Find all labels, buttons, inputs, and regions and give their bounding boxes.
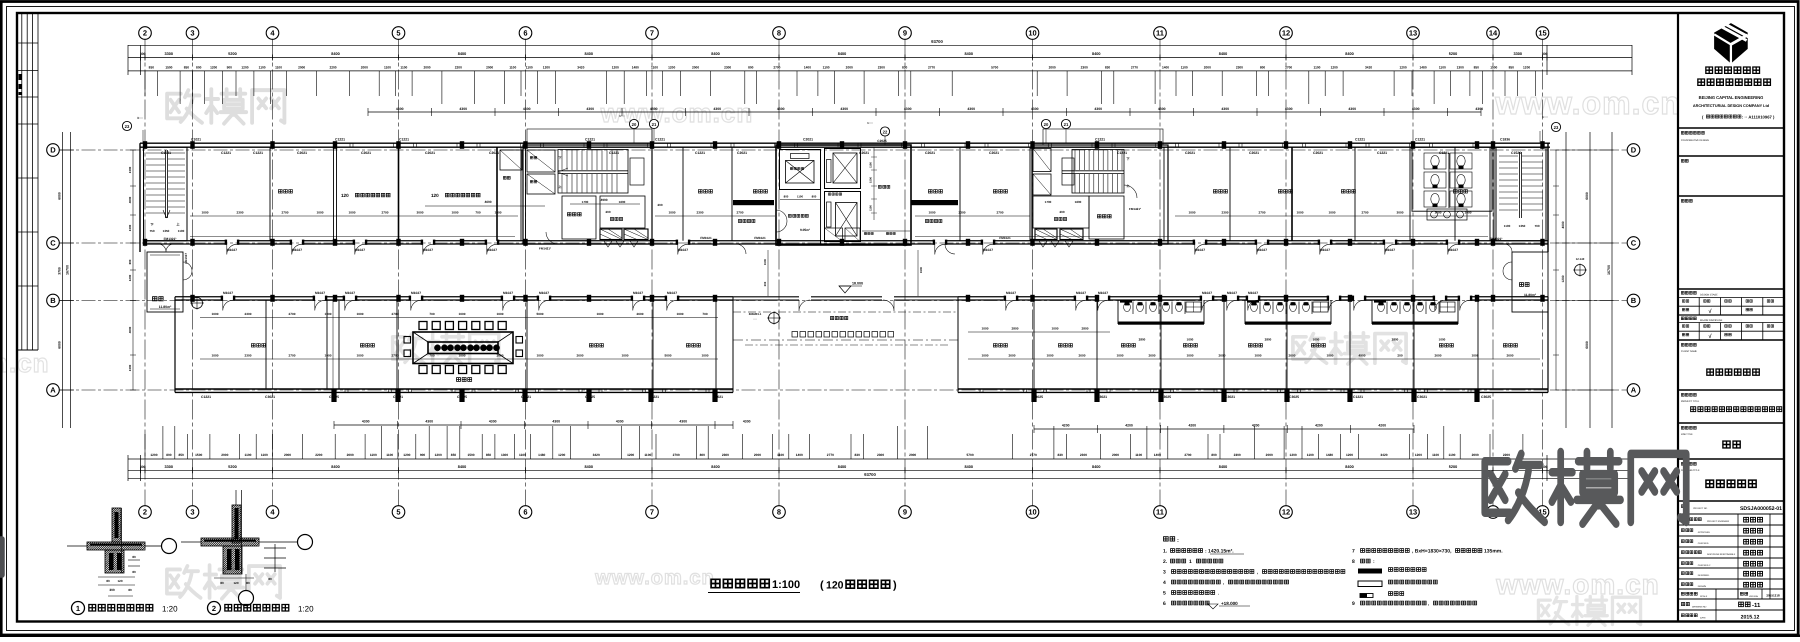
- svg-text:1.: 1.: [1163, 549, 1168, 555]
- svg-text:1000: 1000: [1189, 210, 1196, 214]
- signature box: [1681, 199, 1692, 202]
- svg-text:1200: 1200: [627, 453, 634, 457]
- svg-text:2600: 2600: [1079, 353, 1086, 357]
- svg-text:8400: 8400: [965, 465, 973, 469]
- svg-text:2200: 2200: [329, 66, 336, 70]
- svg-text:1500: 1500: [467, 453, 474, 457]
- column stubs below bottom wall: [331, 389, 336, 402]
- elevation target center-bottom: [769, 313, 780, 324]
- upper room doors (arcs into corridor): [227, 244, 237, 255]
- svg-text:9: 9: [1352, 601, 1355, 607]
- svg-text:6000: 6000: [58, 341, 62, 349]
- fire lift lobby: [820, 190, 822, 245]
- svg-text:FM1421³: FM1421³: [1129, 207, 1141, 211]
- svg-text:2700: 2700: [1184, 453, 1191, 457]
- svg-text:1000: 1000: [537, 353, 544, 357]
- building end walls: [139, 143, 141, 252]
- stair block right-center: [1032, 145, 1168, 244]
- column grid lines: [144, 40, 146, 506]
- svg-text:C2021: C2021: [1313, 151, 1323, 155]
- svg-text:C3025: C3025: [329, 395, 339, 399]
- svg-text:2000: 2000: [692, 66, 699, 70]
- svg-text:1000: 1000: [702, 353, 709, 357]
- svg-text:120: 120: [341, 193, 349, 198]
- svg-text:1000: 1000: [357, 312, 364, 316]
- svg-text:M1027: M1027: [345, 291, 355, 295]
- svg-text:1000: 1000: [212, 312, 219, 316]
- svg-text:1200: 1200: [1561, 275, 1565, 282]
- svg-text:5: 5: [396, 508, 400, 517]
- svg-text:,: ,: [1223, 580, 1224, 585]
- svg-text:1700: 1700: [1045, 200, 1052, 204]
- svg-text:6: 6: [1163, 601, 1166, 607]
- svg-text:1000: 1000: [1052, 326, 1059, 330]
- svg-text:2300: 2300: [878, 66, 885, 70]
- svg-text:900: 900: [227, 66, 233, 70]
- bottom small dims row: [128, 458, 1632, 460]
- svg-text:DESIGNED: DESIGNED: [1698, 574, 1710, 577]
- svg-text:8: 8: [1352, 559, 1355, 565]
- svg-text:8400: 8400: [1092, 52, 1100, 56]
- svg-text:1300: 1300: [128, 224, 132, 231]
- svg-text:2800: 2800: [1265, 338, 1272, 342]
- svg-text:1500: 1500: [195, 453, 202, 457]
- svg-text:11: 11: [1156, 29, 1164, 38]
- svg-text:11.80m²: 11.80m²: [1524, 293, 1537, 297]
- svg-text:1000: 1000: [669, 210, 676, 214]
- svg-text:C3025: C3025: [585, 395, 595, 399]
- detail 2: wall node: [235, 490, 237, 505]
- svg-text:2000: 2000: [1266, 453, 1273, 457]
- svg-text:4200: 4200: [1252, 424, 1260, 428]
- svg-text:80: 80: [246, 581, 250, 585]
- client name box: [1681, 343, 1696, 346]
- svg-text:8400: 8400: [331, 52, 339, 56]
- window mullion ticks top wall: [350, 143, 1476, 147]
- svg-text:+18.000: +18.000: [1221, 601, 1238, 606]
- svg-text:C2021: C2021: [425, 151, 435, 155]
- svg-text:8400: 8400: [838, 52, 846, 56]
- svg-text:8400: 8400: [711, 465, 719, 469]
- svg-text:23: 23: [1554, 125, 1559, 130]
- right end stair: [1496, 147, 1546, 241]
- svg-text:2600: 2600: [1435, 353, 1442, 357]
- svg-text:4300: 4300: [1348, 107, 1356, 111]
- svg-text:800: 800: [812, 194, 817, 198]
- light watermark: bottom-left details: [167, 565, 280, 599]
- svg-text:10: 10: [1028, 29, 1036, 38]
- svg-text:850: 850: [149, 66, 155, 70]
- svg-text:8400: 8400: [1219, 52, 1227, 56]
- svg-text:B: B: [50, 296, 56, 305]
- detail 1 small dims: [128, 559, 140, 561]
- svg-text:850: 850: [1474, 66, 1480, 70]
- design stage header + cells: [1681, 291, 1696, 294]
- elevator shaft 1 (fire lift): [780, 150, 821, 190]
- svg-text:2: 2: [143, 29, 147, 38]
- svg-text:C3021: C3021: [713, 395, 723, 399]
- svg-text:2800: 2800: [1082, 326, 1089, 330]
- svg-text:3300: 3300: [165, 465, 173, 469]
- drawing title box: [1681, 462, 1696, 465]
- svg-text:C2021: C2021: [361, 151, 371, 155]
- upper band top wall: [140, 142, 1550, 144]
- detail 2 small dims: [214, 577, 254, 579]
- svg-text:1100: 1100: [1314, 66, 1321, 70]
- svg-text:1000: 1000: [349, 210, 356, 214]
- svg-text:1480: 1480: [538, 453, 545, 457]
- svg-text:6: 6: [523, 508, 527, 517]
- svg-text:2700: 2700: [382, 210, 389, 214]
- svg-text:1000: 1000: [325, 312, 332, 316]
- conference chairs top/bottom rows: [419, 322, 427, 330]
- svg-text:A: A: [1631, 386, 1637, 395]
- svg-text:93700: 93700: [931, 39, 943, 44]
- toilet stalls right end: [1412, 147, 1492, 211]
- svg-text:JOB TITLE: JOB TITLE: [1681, 433, 1693, 436]
- svg-text:3700: 3700: [58, 267, 62, 275]
- water shaft right-center: [1089, 196, 1124, 239]
- vent hatch cells left-center: [600, 229, 622, 240]
- svg-text:C1221: C1221: [1377, 151, 1387, 155]
- svg-text:4300: 4300: [1285, 107, 1293, 111]
- svg-text:2700: 2700: [289, 353, 296, 357]
- svg-text:13: 13: [1409, 29, 1417, 38]
- svg-text:6: 6: [523, 29, 527, 38]
- svg-text:1000: 1000: [317, 210, 324, 214]
- svg-text:1100: 1100: [259, 66, 266, 70]
- svg-text:16700: 16700: [1607, 265, 1611, 275]
- svg-text:4300: 4300: [743, 420, 751, 424]
- svg-text:1:20: 1:20: [298, 605, 314, 614]
- svg-text:3: 3: [1163, 570, 1166, 576]
- svg-text:SCALE: SCALE: [1700, 595, 1708, 598]
- more tiny dims inside detail area: [108, 595, 133, 597]
- svg-text:300: 300: [109, 588, 115, 592]
- svg-text:2600: 2600: [577, 353, 584, 357]
- svg-text:M1027: M1027: [1385, 248, 1395, 252]
- structural columns on walls: [143, 141, 147, 149]
- svg-text:850: 850: [179, 453, 185, 457]
- svg-text:9: 9: [903, 29, 907, 38]
- svg-text:C2021: C2021: [803, 138, 813, 142]
- lower band bottom wall: [175, 388, 733, 390]
- left small dim chain near building: [132, 150, 134, 390]
- svg-text:M1027: M1027: [1195, 248, 1205, 252]
- svg-text:11: 11: [1156, 508, 1164, 517]
- rest platform labels: [738, 219, 755, 222]
- svg-text:1480: 1480: [1326, 453, 1333, 457]
- svg-text:2300: 2300: [1234, 453, 1241, 457]
- svg-text:4200: 4200: [1189, 424, 1197, 428]
- svg-text:5700: 5700: [967, 453, 974, 457]
- svg-text:8400: 8400: [965, 52, 973, 56]
- top dim ticks: [145, 71, 1536, 104]
- left vertical dim lines: [62, 132, 64, 428]
- detail 1 title: [72, 602, 85, 615]
- light watermark: plan center-right: [1293, 333, 1406, 364]
- light watermark: notes right: [1538, 596, 1640, 625]
- svg-text:www.om.cn: www.om.cn: [594, 567, 714, 589]
- svg-text:1000: 1000: [677, 312, 684, 316]
- svg-text:4300: 4300: [904, 107, 912, 111]
- svg-text:1400: 1400: [1154, 453, 1161, 457]
- svg-text:1100: 1100: [1135, 453, 1142, 457]
- svg-text:3420: 3420: [1380, 453, 1387, 457]
- svg-text:1000: 1000: [1187, 353, 1194, 357]
- project name box: [1681, 393, 1696, 396]
- svg-text:2300: 2300: [697, 210, 704, 214]
- svg-text:1200: 1200: [435, 453, 442, 457]
- svg-text:1000: 1000: [1327, 353, 1334, 357]
- svg-text:C2021: C2021: [297, 151, 307, 155]
- upper double partition at 335: [333, 147, 335, 241]
- elevation target right: [1575, 265, 1586, 276]
- svg-text:1000: 1000: [1313, 338, 1320, 342]
- svg-text:1300: 1300: [128, 166, 132, 173]
- svg-text:830: 830: [855, 453, 861, 457]
- svg-text:8400: 8400: [585, 465, 593, 469]
- svg-text:21: 21: [1064, 122, 1069, 127]
- stairwell left end: [144, 147, 188, 241]
- svg-text:8400: 8400: [838, 465, 846, 469]
- svg-text:1000: 1000: [357, 353, 364, 357]
- svg-text:2200: 2200: [455, 66, 462, 70]
- bottom total dim: [128, 477, 1632, 479]
- svg-text:900: 900: [420, 453, 426, 457]
- svg-text:4300: 4300: [425, 420, 433, 424]
- svg-text:200: 200: [605, 210, 610, 214]
- svg-text:8400: 8400: [458, 465, 466, 469]
- svg-text:4300: 4300: [616, 420, 624, 424]
- svg-text:800: 800: [700, 453, 706, 457]
- bubble 22 near elevator: [880, 127, 889, 136]
- lower band upper dim row (right, before toilets): [968, 331, 1110, 333]
- svg-text:750: 750: [149, 229, 154, 233]
- svg-text:B: B: [1631, 296, 1637, 305]
- svg-text:M1027: M1027: [355, 248, 365, 252]
- svg-text:4: 4: [1163, 580, 1166, 586]
- notes left column: [1164, 537, 1175, 541]
- svg-text:9: 9: [903, 508, 907, 517]
- svg-text:2000: 2000: [1204, 66, 1211, 70]
- svg-text:1600: 1600: [1075, 200, 1082, 204]
- svg-text:2770: 2770: [928, 66, 935, 70]
- svg-text:4200: 4200: [1125, 424, 1133, 428]
- svg-text:23: 23: [125, 124, 130, 129]
- landing rect right-center: [1062, 158, 1074, 185]
- svg-text:2770: 2770: [827, 453, 834, 457]
- door arc stair left-center: [546, 232, 558, 244]
- svg-text:1200: 1200: [150, 453, 157, 457]
- svg-text:1500: 1500: [870, 177, 873, 183]
- svg-text:M1027: M1027: [1076, 291, 1086, 295]
- title block logo: [1714, 23, 1750, 63]
- svg-text:: 1420.15m².: : 1420.15m².: [1205, 549, 1234, 555]
- svg-text:C3025: C3025: [1033, 395, 1043, 399]
- svg-text:700: 700: [429, 353, 434, 357]
- svg-text:····: ····: [181, 297, 185, 301]
- svg-text:1000: 1000: [497, 312, 504, 316]
- svg-text:2200: 2200: [1503, 453, 1510, 457]
- svg-text:1300: 1300: [128, 364, 132, 371]
- svg-text:C3021: C3021: [1097, 395, 1107, 399]
- svg-text:1600: 1600: [619, 200, 626, 204]
- upper thick partitions: [398, 147, 400, 241]
- stair treads left-center (vertical): [558, 150, 628, 194]
- svg-text:1100: 1100: [1307, 453, 1314, 457]
- svg-text:DISCIPLINE RESPONSIBLE: DISCIPLINE RESPONSIBLE: [1707, 553, 1736, 556]
- svg-text:M1027: M1027: [315, 291, 325, 295]
- svg-text:8400: 8400: [458, 52, 466, 56]
- svg-text:2600: 2600: [497, 353, 504, 357]
- svg-text:2600: 2600: [637, 312, 644, 316]
- svg-text:200: 200: [1397, 353, 1402, 357]
- svg-text:1: 1: [1189, 559, 1192, 565]
- lower band partition walls: [265, 300, 267, 389]
- svg-text:1000: 1000: [1117, 353, 1124, 357]
- svg-text:1000: 1000: [452, 210, 459, 214]
- svg-text:C1221: C1221: [399, 138, 409, 142]
- svg-text:ARCHITECTURIAL DESIGN COMPANY: ARCHITECTURIAL DESIGN COMPANY Ltd: [1693, 104, 1770, 108]
- svg-text:D: D: [50, 146, 56, 155]
- svg-text:C1221: C1221: [1353, 395, 1363, 399]
- svg-text:C2021: C2021: [737, 151, 747, 155]
- svg-text:M1027: M1027: [983, 248, 993, 252]
- date row: [1681, 614, 1697, 617]
- svg-text:CO-OPERATIVE DESIGN: CO-OPERATIVE DESIGN: [1681, 139, 1709, 142]
- svg-text:2800: 2800: [1012, 326, 1019, 330]
- svg-text:80: 80: [132, 555, 136, 559]
- 4300 bay dims top: [368, 111, 1481, 113]
- svg-text:2300: 2300: [1080, 453, 1087, 457]
- job title box: [1681, 426, 1696, 429]
- svg-text:D: D: [1631, 146, 1637, 155]
- svg-text:6000: 6000: [1585, 341, 1589, 349]
- svg-text:(: (: [820, 580, 824, 592]
- svg-text:12: 12: [1282, 29, 1290, 38]
- svg-text:1:20: 1:20: [162, 605, 178, 614]
- svg-text:C3025: C3025: [1289, 395, 1299, 399]
- svg-text:FM1021: FM1021: [754, 236, 766, 240]
- upper band partition walls: [186, 147, 188, 241]
- svg-text:4200: 4200: [1378, 424, 1386, 428]
- svg-text:M1027: M1027: [633, 291, 643, 295]
- svg-text:1400: 1400: [804, 66, 811, 70]
- svg-text:1480: 1480: [1420, 66, 1427, 70]
- svg-text:3420: 3420: [1365, 66, 1372, 70]
- svg-text:4200: 4200: [1062, 424, 1070, 428]
- svg-text:2700: 2700: [773, 66, 780, 70]
- lower band top wall: [175, 296, 223, 298]
- svg-text:5: 5: [396, 29, 400, 38]
- svg-text:1100: 1100: [370, 453, 377, 457]
- center corridor extra door arcs near block: [736, 244, 746, 254]
- svg-text:1500: 1500: [763, 258, 767, 265]
- svg-text:2300: 2300: [959, 210, 966, 214]
- svg-text:2600: 2600: [1149, 353, 1156, 357]
- svg-text:PROJECT ENGINEER: PROJECT ENGINEER: [1707, 520, 1730, 523]
- detail 2 title: [208, 602, 221, 615]
- row grid lines A-D: [60, 149, 1628, 151]
- svg-text:1: 1: [76, 604, 80, 613]
- vent triangles right-center: [1039, 241, 1073, 247]
- svg-text:2: 2: [143, 508, 147, 517]
- svg-text:C1221: C1221: [335, 138, 345, 142]
- top grid bubbles: [139, 27, 152, 40]
- svg-text:www.om.cn: www.om.cn: [1495, 569, 1660, 600]
- conference room label: [457, 378, 472, 382]
- svg-text:14: 14: [1489, 29, 1498, 38]
- svg-text:,: ,: [1428, 601, 1429, 606]
- svg-text:93700: 93700: [864, 472, 876, 477]
- left balcony: [147, 252, 183, 312]
- svg-text:2000: 2000: [1472, 453, 1479, 457]
- svg-text:800: 800: [196, 66, 202, 70]
- svg-text:2300: 2300: [724, 66, 731, 70]
- right fire door: [1504, 244, 1512, 252]
- svg-text:5200: 5200: [228, 52, 236, 56]
- svg-text:1100: 1100: [1504, 224, 1511, 228]
- svg-text:6000: 6000: [58, 192, 62, 200]
- svg-text:12.140: 12.140: [1576, 257, 1585, 261]
- toilet cluster at 1372: [1372, 322, 1458, 325]
- svg-text:M1027: M1027: [1227, 291, 1237, 295]
- svg-text:2600: 2600: [1507, 353, 1514, 357]
- svg-text:1····: 1····: [867, 121, 873, 125]
- svg-text:FM1421³: FM1421³: [539, 247, 551, 251]
- svg-text:BEIJING CAPITAL ENGINEERING: BEIJING CAPITAL ENGINEERING: [1699, 95, 1764, 100]
- svg-text:2700: 2700: [997, 210, 1004, 214]
- svg-text:4900: 4900: [1359, 353, 1366, 357]
- svg-text:80: 80: [128, 588, 132, 592]
- svg-text:1350: 1350: [163, 229, 170, 233]
- svg-text:1700: 1700: [582, 200, 589, 204]
- major discipline header + cells: [1681, 317, 1696, 320]
- right small dim chain near building: [1555, 150, 1557, 390]
- svg-text:2700: 2700: [737, 210, 744, 214]
- svg-text:700: 700: [702, 312, 707, 316]
- svg-text:2300: 2300: [722, 453, 729, 457]
- svg-text:2000: 2000: [423, 66, 430, 70]
- svg-text:M1027: M1027: [1098, 291, 1108, 295]
- svg-text:2000: 2000: [846, 66, 853, 70]
- svg-text:1000: 1000: [212, 353, 219, 357]
- svg-text:4300: 4300: [713, 107, 721, 111]
- svg-text:2300: 2300: [237, 210, 244, 214]
- svg-text:4300: 4300: [1094, 107, 1102, 111]
- svg-text:M1027: M1027: [1257, 248, 1267, 252]
- svg-text:120: 120: [431, 193, 439, 198]
- svg-text:3····: 3····: [137, 116, 143, 120]
- svg-text:C1221: C1221: [655, 138, 665, 142]
- svg-text:2700: 2700: [1362, 210, 1369, 214]
- svg-text:8400: 8400: [711, 52, 719, 56]
- svg-text:M1027: M1027: [539, 291, 549, 295]
- svg-text:1200: 1200: [558, 453, 565, 457]
- svg-text:C3021: C3021: [521, 395, 531, 399]
- svg-text:4000: 4000: [128, 326, 132, 333]
- svg-text:7: 7: [650, 508, 654, 517]
- svg-text:1000: 1000: [325, 353, 332, 357]
- svg-text:22: 22: [883, 129, 888, 134]
- drawing number row: [1681, 603, 1689, 606]
- svg-text:PROJECT NO: PROJECT NO: [1693, 507, 1707, 510]
- big dark watermark (bottom right): [1485, 452, 1686, 524]
- svg-text:1200: 1200: [1290, 453, 1297, 457]
- svg-text:700: 700: [429, 312, 434, 316]
- svg-text:80: 80: [268, 577, 272, 581]
